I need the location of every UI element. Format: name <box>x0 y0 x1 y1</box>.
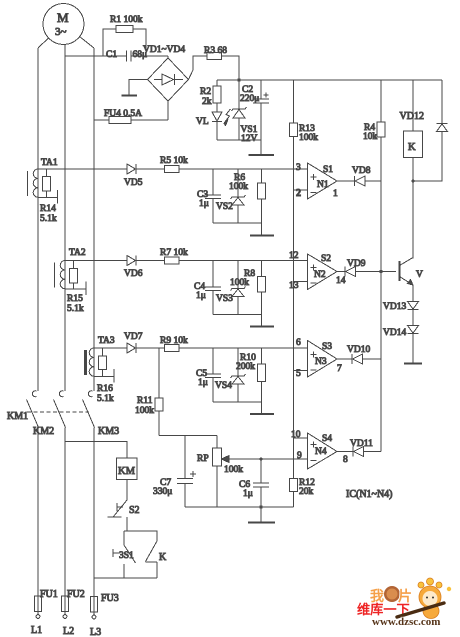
svg-text:KM: KM <box>118 466 136 477</box>
wire reference bus (pins 2,13,5,10) <box>293 137 295 479</box>
svg-text:R1 100k: R1 100k <box>110 15 143 25</box>
svg-text:KM3: KM3 <box>98 426 119 437</box>
node output bus / base junction <box>379 270 382 273</box>
wire TA1 secondary bottom <box>38 190 58 204</box>
logo watermark dzsc <box>357 578 451 628</box>
svg-text:3~: 3~ <box>55 26 67 38</box>
wire TA2 signal to N2 <box>65 260 127 262</box>
svg-text:12V: 12V <box>241 134 258 144</box>
wire pin2 stub <box>294 189 308 191</box>
ground under R6 <box>250 223 274 236</box>
svg-text:VL: VL <box>196 117 209 127</box>
potentiometer RP 100k <box>197 436 262 508</box>
svg-text:VD9: VD9 <box>347 259 366 269</box>
capacitor C7 330u <box>153 436 196 508</box>
svg-text:9: 9 <box>297 451 302 461</box>
wire N1 output <box>337 180 355 182</box>
svg-text:FU3: FU3 <box>101 593 119 604</box>
wire +12V rail <box>217 79 442 81</box>
svg-text:100k: 100k <box>299 133 318 143</box>
svg-text:L3: L3 <box>90 627 101 637</box>
wire VL to VS1 bottom <box>217 139 261 141</box>
svg-text:10k: 10k <box>363 132 378 142</box>
svg-text:VD6: VD6 <box>124 269 143 279</box>
svg-text:K: K <box>159 552 167 563</box>
resistor R3 68 <box>189 46 240 80</box>
contact KM2 <box>33 391 66 437</box>
resistor R16 5.1k <box>97 348 114 404</box>
svg-text:14: 14 <box>336 276 346 286</box>
zener VS1 12V <box>232 80 258 144</box>
resistor R12 20k <box>290 478 316 507</box>
resistor R4 10k <box>363 80 385 142</box>
svg-text:www.dzsc.com: www.dzsc.com <box>372 616 440 628</box>
svg-text:100k: 100k <box>229 182 248 192</box>
zener VS4 <box>215 348 246 402</box>
wire phase line C (x=94) <box>93 48 95 391</box>
wire pin13 stub <box>294 281 308 283</box>
svg-text:L2: L2 <box>63 626 74 637</box>
wire phase line A (x=38) <box>37 48 39 391</box>
node bottom wire / ground <box>259 505 262 508</box>
op-amp N2 (S2) <box>289 251 346 291</box>
svg-text:5.1k: 5.1k <box>97 394 114 404</box>
diode VD7 <box>124 332 165 353</box>
LED VL <box>196 109 231 140</box>
svg-text:M: M <box>57 10 69 25</box>
bridge rectifier VD1~VD4 <box>143 45 189 101</box>
svg-text:S2: S2 <box>321 254 331 264</box>
relay coil K <box>404 80 423 259</box>
svg-text:100k: 100k <box>135 406 154 416</box>
wire contact linkage (dashed) <box>27 411 89 413</box>
svg-text:R3 68: R3 68 <box>204 46 227 56</box>
svg-text:VD1~VD4: VD1~VD4 <box>143 45 185 55</box>
svg-text:S4: S4 <box>322 434 332 444</box>
motor M1 (3-phase) <box>43 4 84 45</box>
diode VD9 <box>345 259 396 277</box>
ground under C6 <box>248 507 275 523</box>
wire N4 output <box>337 451 353 453</box>
wire phase C lower <box>93 428 95 597</box>
svg-text:R14: R14 <box>40 204 56 214</box>
svg-text:100k: 100k <box>230 278 249 288</box>
wire motor right lead to phase C <box>80 37 95 49</box>
diode VD5 <box>124 164 165 188</box>
svg-text:VD13: VD13 <box>383 302 406 312</box>
wire control return to phase C <box>94 577 157 579</box>
svg-text:1μ: 1μ <box>243 489 253 499</box>
diode VD13 <box>383 302 419 326</box>
current transformer TA3 <box>86 336 115 376</box>
svg-text:R9 10k: R9 10k <box>160 336 188 346</box>
svg-text:TA1: TA1 <box>41 158 58 168</box>
resistor R8 100k <box>230 261 266 315</box>
svg-text:FU4 0.5A: FU4 0.5A <box>104 109 142 119</box>
svg-text:VS4: VS4 <box>215 381 232 391</box>
wire R11 to C7/RP <box>159 435 217 437</box>
svg-text:FU2: FU2 <box>67 589 85 600</box>
svg-text:S2: S2 <box>129 505 140 516</box>
svg-text:N2: N2 <box>314 270 326 280</box>
svg-text:R16: R16 <box>97 384 113 394</box>
diode VD12 <box>400 80 448 181</box>
wire emitter down <box>412 285 414 302</box>
resistor R14 5.1k <box>40 169 57 224</box>
diode VD10 <box>347 345 381 364</box>
node +12V junction <box>237 78 240 81</box>
svg-text:R15: R15 <box>67 294 83 304</box>
capacitor C4 1u <box>194 261 221 315</box>
resistor R5 10k <box>160 156 308 173</box>
contact KM1 <box>7 391 39 428</box>
fuse FU2 <box>62 589 85 637</box>
svg-text:1μ: 1μ <box>198 378 208 388</box>
svg-text:VD5: VD5 <box>124 178 143 188</box>
svg-text:VD12: VD12 <box>400 111 424 122</box>
svg-text:KM2: KM2 <box>33 426 54 437</box>
svg-text:1μ: 1μ <box>199 199 209 209</box>
svg-text:330μ: 330μ <box>153 487 172 497</box>
svg-text:RP: RP <box>197 454 209 464</box>
wire TA1 signal to N1 <box>38 168 127 170</box>
resistor R6 100k <box>229 169 266 223</box>
diode VD14 <box>383 326 419 364</box>
ground under bridge <box>122 95 138 97</box>
svg-text:VD11: VD11 <box>350 439 373 449</box>
svg-text:2k: 2k <box>202 97 212 107</box>
resistor R1 100k <box>103 15 146 56</box>
ground under C2/VS1 <box>249 140 275 155</box>
op-amp N1 (S1) <box>296 163 338 199</box>
svg-text:TA3: TA3 <box>98 336 115 346</box>
pushbutton 3S1 (start, NO) <box>113 531 136 578</box>
wire phase B lower <box>64 428 66 597</box>
svg-text:VD10: VD10 <box>347 345 370 355</box>
op-amp N3 (S3) <box>296 338 342 379</box>
wire TA3 secondary bottom <box>94 369 114 383</box>
node K/VD12 junction <box>411 179 414 182</box>
svg-text:S1: S1 <box>323 165 333 175</box>
svg-text:8: 8 <box>343 455 348 465</box>
zener VS3 <box>216 261 246 315</box>
ground under R8 <box>250 315 274 327</box>
ground under R10 <box>250 402 274 414</box>
wire C5/VS4/R10 bottom <box>213 401 262 403</box>
wire C3/VS2/R6 bottom <box>213 222 262 224</box>
svg-text:L1: L1 <box>31 625 42 636</box>
node wiper/C6 <box>260 458 263 461</box>
wire bridge bottom to FU4 <box>167 101 169 120</box>
diode VD11 <box>350 439 381 457</box>
svg-text:1μ: 1μ <box>196 291 206 301</box>
contact K (self-hold) <box>146 541 168 578</box>
resistor R2 2k <box>200 80 221 112</box>
svg-text:3S1: 3S1 <box>119 551 134 561</box>
wire pin5 stub <box>294 370 308 372</box>
wire N3 output <box>337 358 352 360</box>
svg-text:1: 1 <box>333 189 338 199</box>
wire C4/VS3/R8 bottom <box>213 314 262 316</box>
svg-text:VS2: VS2 <box>216 202 233 212</box>
capacitor C6 1u <box>239 459 269 507</box>
ground under VD14 <box>404 363 422 365</box>
diode VD6 <box>124 256 165 280</box>
svg-text:7: 7 <box>337 364 342 374</box>
resistor R13 100k <box>290 80 319 143</box>
svg-text:C1: C1 <box>106 50 117 60</box>
wire TA2 secondary bottom <box>65 282 86 296</box>
resistor R15 5.1k <box>67 261 84 315</box>
wire control branch to KM coil <box>65 442 127 459</box>
transistor V <box>400 258 424 286</box>
contact KM3 <box>83 391 120 437</box>
svg-text:N3: N3 <box>315 357 327 367</box>
svg-text:5.1k: 5.1k <box>67 304 84 314</box>
fuse FU4 0.5A <box>94 109 168 124</box>
svg-text:20k: 20k <box>299 487 314 497</box>
current transformer TA2 <box>55 248 86 289</box>
fuse FU3 <box>90 593 119 637</box>
svg-text:220μ: 220μ <box>240 94 259 104</box>
svg-text:VD7: VD7 <box>124 332 143 342</box>
svg-text:5.1k: 5.1k <box>40 214 57 224</box>
wire N2 output to base <box>337 271 345 273</box>
svg-text:R11: R11 <box>137 396 153 406</box>
svg-text:KM1: KM1 <box>7 411 28 422</box>
fuse FU1 <box>31 589 58 636</box>
resistor R10 200k <box>236 348 266 402</box>
svg-text:3: 3 <box>296 163 301 173</box>
svg-text:VS3: VS3 <box>216 294 233 304</box>
capacitor C1 68u <box>106 50 147 62</box>
svg-text:N1: N1 <box>317 180 329 190</box>
wire comparator output bus <box>380 137 382 452</box>
svg-text:TA2: TA2 <box>69 248 86 258</box>
wire motor left lead to phase A <box>38 38 49 48</box>
wire phase line B (x=65) <box>64 45 66 392</box>
wire motor tap to C1 <box>65 55 168 57</box>
svg-text:200k: 200k <box>236 362 255 372</box>
wire bridge top to C1 line <box>167 56 169 58</box>
resistor R11 100k <box>135 348 163 436</box>
resistor R7 10k <box>160 248 308 264</box>
op-amp N4 (S4) <box>291 430 348 469</box>
svg-text:R5 10k: R5 10k <box>160 156 188 166</box>
diode VD8 <box>352 166 381 186</box>
svg-text:13: 13 <box>289 281 299 291</box>
zener VS2 <box>216 169 246 223</box>
contactor coil KM <box>117 458 138 500</box>
wire S1/K parallel top <box>124 531 157 541</box>
svg-text:100k: 100k <box>224 465 243 475</box>
svg-text:R7 10k: R7 10k <box>160 248 188 258</box>
svg-text:IC(N1~N4): IC(N1~N4) <box>346 489 393 500</box>
svg-text:N4: N4 <box>315 447 327 457</box>
svg-text:R2: R2 <box>200 87 211 97</box>
wire TA3 signal to N3 <box>94 347 127 349</box>
resistor R9 10k <box>160 336 308 352</box>
current transformer TA1 <box>28 158 58 197</box>
svg-text:6: 6 <box>296 338 301 348</box>
svg-text:VD8: VD8 <box>352 166 371 176</box>
svg-text:12: 12 <box>289 251 299 261</box>
wire bridge left to ground <box>129 80 148 96</box>
svg-text:K: K <box>408 142 416 153</box>
svg-text:V: V <box>416 270 423 280</box>
svg-text:VD14: VD14 <box>383 328 406 338</box>
capacitor C2 220u <box>240 80 269 140</box>
svg-text:S3: S3 <box>322 342 332 352</box>
wire pin10 stub <box>294 437 308 439</box>
wire phase A lower <box>37 428 39 597</box>
wire RP wiper to pin 9 <box>262 458 308 460</box>
wire C7/RP/C6/R12 bottom <box>185 506 294 508</box>
capacitor C3 1u <box>197 169 221 223</box>
capacitor C5 1u <box>196 348 221 402</box>
pushbutton S2 (stop, NC) <box>108 500 140 531</box>
svg-text:FU1: FU1 <box>40 589 58 600</box>
